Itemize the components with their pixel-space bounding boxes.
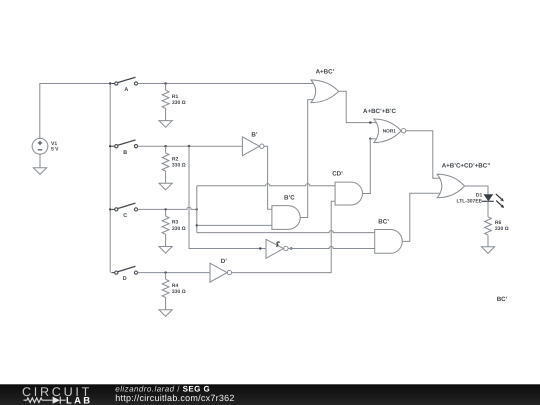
svg-text:R3: R3 xyxy=(172,220,179,226)
wire: AND B'C output up to OR1 bottom input xyxy=(300,100,314,218)
svg-text:LTL-307EE: LTL-307EE xyxy=(457,199,483,205)
inverter D' xyxy=(210,263,232,282)
OR gate A+B'C+CD'+BC'' xyxy=(437,174,464,198)
wire: inverter output to AND BC' bottom input, hops over D' vertical xyxy=(288,246,375,248)
ground (below R1) xyxy=(159,121,172,128)
ground (below V1) xyxy=(33,168,46,175)
svg-text:R4: R4 xyxy=(172,283,179,289)
svg-text:D: D xyxy=(123,276,127,282)
junction node B / R2 xyxy=(164,145,166,147)
label B xyxy=(123,150,127,156)
svg-text:C: C xyxy=(123,213,127,219)
pin junction inverter input xyxy=(259,247,261,249)
svg-text:NOR1: NOR1 xyxy=(383,129,396,134)
junction node B / branch down xyxy=(188,145,190,147)
junction node A / R1 xyxy=(164,82,166,84)
wire: switch D to inverter D' (node D) xyxy=(138,272,210,274)
junction rail/switch B xyxy=(109,145,111,147)
wire: node C down-branch to AND BC' top input, hops over D' vertical xyxy=(197,209,375,232)
svg-text:A+BC’: A+BC’ xyxy=(316,68,335,75)
wire: node C to AND B'C bottom input xyxy=(197,224,272,226)
wire: OR3 output to LED D1 xyxy=(465,186,489,194)
label R2 330 ohm xyxy=(172,157,186,169)
svg-text:R6: R6 xyxy=(495,220,502,226)
svg-text:330 Ω: 330 Ω xyxy=(172,100,186,106)
label D xyxy=(123,276,127,282)
OR gate A+BC' xyxy=(311,80,339,103)
wire: switch B to inverter B' (node B) xyxy=(138,145,243,147)
junction rail/switch A xyxy=(109,82,111,84)
svg-text:A+B’C+CD’+BC’’: A+B’C+CD’+BC’’ xyxy=(442,162,491,169)
pin junction NOR1 input 2 xyxy=(369,138,371,140)
junction node D / R4 xyxy=(164,271,166,273)
inverter B' xyxy=(242,137,264,156)
AND gate B'C xyxy=(272,206,300,230)
svg-text:LAB: LAB xyxy=(66,395,92,405)
LED D1 xyxy=(482,194,505,208)
svg-text:B’: B’ xyxy=(251,131,257,138)
junction node C / R3 xyxy=(164,208,166,210)
svg-text:B: B xyxy=(123,150,127,156)
NOR gate NOR1 xyxy=(374,119,406,143)
label B' xyxy=(251,131,257,138)
svg-text:A+BC’+B’C: A+BC’+B’C xyxy=(363,108,397,115)
label A xyxy=(124,87,128,93)
wire: OR1 output to NOR1 top input xyxy=(339,91,377,122)
pin junction inverter output xyxy=(290,247,292,249)
svg-text:5 V: 5 V xyxy=(51,147,59,153)
ground (below R2) xyxy=(159,183,172,190)
label NOR1 xyxy=(383,129,396,134)
svg-text:D1: D1 xyxy=(476,192,483,198)
label on inverter xyxy=(276,242,280,246)
label A+BC' xyxy=(316,68,335,75)
wire: node B down-branch to inverter 3 input xyxy=(189,146,266,248)
svg-text:D’: D’ xyxy=(221,258,227,265)
CircuitLab logo resistor-diode symbol xyxy=(24,397,66,404)
label CD' xyxy=(332,171,343,178)
wire: AND BC' output up to OR3 bottom input xyxy=(402,193,440,241)
label D' xyxy=(221,258,227,265)
voltage source V1 xyxy=(32,138,48,154)
resistor R1 xyxy=(162,84,169,121)
label V1 5 V xyxy=(51,141,59,152)
label R4 330 ohm xyxy=(172,283,186,295)
resistor R2 xyxy=(162,146,169,183)
node label BC' xyxy=(497,296,508,303)
label R3 330 ohm xyxy=(172,220,186,232)
switch C xyxy=(111,203,137,211)
wire: V1 positive to rail top xyxy=(40,84,110,139)
svg-text:BC’: BC’ xyxy=(497,296,508,303)
svg-text:CD’: CD’ xyxy=(332,171,343,178)
switch B xyxy=(111,140,137,148)
svg-text:330 Ω: 330 Ω xyxy=(172,163,186,169)
svg-text:B’C: B’C xyxy=(284,194,295,201)
label B'C xyxy=(284,194,295,201)
wire: inverter B' output down to AND B'C top input xyxy=(264,146,272,209)
wire: AND CD' output up to NOR1 bottom input xyxy=(363,139,377,194)
label BC' xyxy=(378,219,389,226)
resistor R4 xyxy=(162,273,169,310)
footer bar xyxy=(0,384,540,405)
junction node C lower branch xyxy=(196,224,198,226)
ground (below R3) xyxy=(159,247,172,254)
label D1 LTL-307EE xyxy=(457,192,483,204)
label R1 330 ohm xyxy=(172,94,186,106)
svg-text:R1: R1 xyxy=(172,94,179,100)
wire: NOR1 output down to OR3 top input xyxy=(406,131,442,179)
AND gate BC' xyxy=(375,230,403,254)
switch A xyxy=(111,77,137,85)
switch D xyxy=(111,266,137,274)
svg-text:330 Ω: 330 Ω xyxy=(172,289,186,295)
svg-text:BC’: BC’ xyxy=(378,219,389,226)
wire: inverter D' output up to AND CD' bottom input xyxy=(232,201,336,272)
svg-text:http://circuitlab.com/cx7r362: http://circuitlab.com/cx7r362 xyxy=(115,393,234,403)
label C xyxy=(123,213,127,219)
label A+B'C+CD'+BC'' xyxy=(442,162,491,169)
ground (below R6) xyxy=(481,247,494,254)
pin junction NOR1 input 1 xyxy=(369,121,371,123)
ground (below R4) xyxy=(159,310,172,317)
wire: supply rail for switches xyxy=(109,84,111,273)
junction rail/switch C xyxy=(109,208,111,210)
label R6 330 ohm xyxy=(495,220,509,232)
AND gate CD' xyxy=(335,182,362,205)
svg-text:R2: R2 xyxy=(172,157,179,163)
wire: switch C to junction (node C), hops over B branch xyxy=(138,207,197,209)
wire: V1 negative to ground xyxy=(39,154,41,168)
svg-text:elizandro.larad / SEG G: elizandro.larad / SEG G xyxy=(115,385,210,394)
wire: switch A to OR1 input (node A) xyxy=(138,83,314,85)
inverter (B to BC' gate) xyxy=(266,239,288,258)
resistor R3 xyxy=(162,209,169,246)
wire: LED cathode to R6 xyxy=(487,201,489,217)
resistor R6 xyxy=(485,217,492,247)
junction node C xyxy=(196,208,198,210)
CircuitLab logo wordmark xyxy=(22,385,92,405)
svg-text:A: A xyxy=(124,87,128,93)
svg-text:330 Ω: 330 Ω xyxy=(172,226,186,232)
wire: node C up-branch to AND CD' top input, hops over two verticals xyxy=(197,184,335,210)
label A+BC'+B'C xyxy=(363,108,397,115)
svg-text:330 Ω: 330 Ω xyxy=(495,226,509,232)
